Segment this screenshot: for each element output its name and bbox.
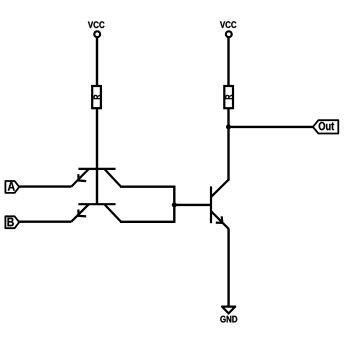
resistor R1 — [92, 86, 101, 108]
wire R2 to output node — [227, 108, 229, 127]
value label R of R1 — [94, 95, 101, 100]
ground symbol — [222, 307, 235, 314]
ground label GND — [220, 316, 237, 323]
wire R1 to Q1/Q2 base rail — [96, 108, 98, 204]
input tag A — [5, 181, 19, 193]
value label R of R2 — [225, 95, 232, 100]
output tag Out — [313, 120, 338, 133]
transistor Q2 (input B) — [71, 204, 121, 222]
wire output node to Q3 collector — [227, 127, 229, 181]
wire input A to Q1 emitter — [19, 185, 71, 187]
wire Q2 collector to node — [120, 221, 175, 223]
node junction dot — [172, 202, 177, 207]
VCC terminal circle (right supply) — [226, 31, 232, 37]
wire output node to Out tag — [229, 126, 314, 128]
input label A — [8, 182, 15, 191]
wire Q1 collector to node — [120, 185, 175, 187]
input label B — [8, 218, 14, 227]
wire VCC1 to R1 — [96, 37, 98, 86]
output node dot — [226, 124, 231, 129]
VCC label (right supply) — [220, 21, 236, 28]
wire input B to Q2 emitter — [19, 220, 71, 222]
wire Q3 emitter to ground — [227, 229, 229, 307]
VCC terminal circle (left supply) — [94, 31, 100, 37]
transistor Q3 (output) — [211, 180, 229, 229]
wire collector tie vertical — [173, 186, 175, 223]
wire node to Q3 base — [174, 204, 210, 206]
resistor R2 — [224, 86, 233, 108]
wire VCC2 to R2 — [227, 37, 229, 86]
input tag B — [5, 216, 19, 228]
output label Out — [319, 122, 334, 130]
transistor Q1 (input A) — [71, 169, 121, 187]
VCC label (left supply) — [88, 21, 105, 28]
